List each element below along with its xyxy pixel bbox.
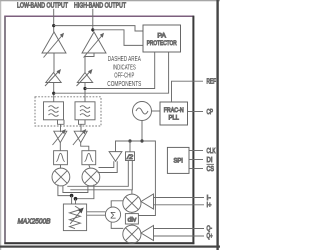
- wire bandpass to mixer high-band: [89, 165, 90, 168]
- wire filter to down VGA low-band: [60, 124, 62, 132]
- wire Q+ input: [154, 235, 205, 237]
- wire sigma to Q mixer: [111, 222, 123, 229]
- wire LO to mixer high-band lower: [98, 161, 118, 172]
- wire filter to down VGA high-band: [80, 124, 82, 132]
- wire high-band to PA protector: [93, 30, 143, 46]
- svg-text:OFF-CHIP: OFF-CHIP: [114, 73, 134, 80]
- chip frame: [5, 16, 193, 243]
- svg-text:FRAC-N: FRAC-N: [164, 108, 184, 114]
- divider div (quadrature): [125, 212, 138, 225]
- wire CP output: [188, 111, 204, 113]
- wire LO rail: [116, 141, 156, 216]
- wire CLK: [189, 150, 203, 152]
- filter bandpass high-band: [82, 151, 96, 165]
- wire mixer low-band out a: [58, 185, 72, 196]
- svg-text:LOW-BAND OUTPUT: LOW-BAND OUTPUT: [17, 3, 69, 10]
- wire sigma to I mixer: [111, 201, 123, 208]
- op-amp low-band PA driver (variable gain): [42, 32, 66, 58]
- svg-text:PA: PA: [157, 33, 166, 39]
- wire VGA to bandpass low-band: [59, 142, 61, 150]
- node junction high-band PA feedback: [83, 87, 86, 90]
- wire VGA jog to bandpass high-band: [81, 142, 89, 150]
- wire mixer low-band out b: [63, 185, 88, 192]
- op-amp Q input buffer: [141, 226, 154, 241]
- wire VCO down to LO rail: [141, 121, 143, 142]
- figure outer border bottom: [0, 246, 220, 248]
- filter bandpass low-band: [54, 151, 68, 165]
- wire LO to mixer high-band upper: [99, 161, 114, 167]
- wire PA protector feedback high-band: [85, 52, 155, 89]
- op-amp I input buffer: [141, 194, 154, 209]
- svg-text:CLK: CLK: [207, 148, 216, 155]
- wire driver to VGA low-band: [53, 53, 55, 73]
- svg-text:PLL: PLL: [168, 115, 179, 121]
- filter off-chip low-band (SAW): [44, 102, 65, 125]
- wire VGA to off-chip filter high-band: [84, 83, 86, 102]
- wire I+ input: [154, 204, 205, 206]
- op-amp low-band down VGA: [53, 129, 67, 145]
- svg-text:PROTECTOR: PROTECTOR: [147, 41, 178, 47]
- node LO rail junction at divider: [128, 139, 131, 142]
- mixer I: [123, 194, 141, 212]
- node junction high-band sense: [91, 28, 94, 31]
- SPI interface U3: [167, 147, 189, 173]
- PA protector U1: [143, 25, 181, 52]
- svg-text:Σ: Σ: [110, 210, 116, 221]
- svg-text:div: div: [128, 218, 137, 224]
- figure outer border right: [216, 0, 218, 250]
- svg-text:INDICATES: INDICATES: [113, 64, 136, 71]
- wire driver jog high-band: [85, 53, 94, 73]
- chip frame right edge (thick): [192, 16, 194, 245]
- node junction low-band sense: [52, 24, 55, 27]
- svg-text:DI: DI: [207, 157, 213, 164]
- svg-text:COMPONENTS: COMPONENTS: [107, 81, 141, 88]
- wire attenuator feed a: [71, 196, 73, 205]
- text off-chip note: [107, 56, 141, 88]
- node attenuator input b: [74, 197, 78, 201]
- wire CS: [189, 168, 203, 170]
- op-amp LO buffer: [109, 152, 122, 162]
- wire I- input: [154, 197, 205, 199]
- svg-text:SPI: SPI: [173, 158, 183, 164]
- svg-text:CS: CS: [207, 166, 215, 173]
- mixer high-band upconverter: [82, 168, 100, 186]
- wire low-band to PA protector: [54, 26, 143, 31]
- wire VCO to PLL: [152, 110, 161, 112]
- chip frame bottom edge (thick): [4, 242, 194, 244]
- svg-text:REF: REF: [207, 79, 217, 86]
- wire sigma to attenuator a: [87, 211, 106, 213]
- wire mixer high-band out b: [76, 185, 94, 199]
- svg-text:Q+: Q+: [207, 233, 213, 240]
- oscillator VCO: [133, 102, 152, 121]
- wire Q- input: [154, 228, 205, 230]
- divider /2: [126, 152, 135, 161]
- node LO rail junction at VCO: [140, 139, 143, 142]
- off-chip dashed area: [35, 97, 101, 126]
- svg-text:DASHED AREA: DASHED AREA: [108, 56, 141, 63]
- mixer low-band upconverter: [52, 168, 70, 186]
- wire VGA to off-chip filter low-band: [53, 83, 55, 102]
- figure outer border top: [0, 0, 220, 2]
- PLL U2 FRAC-N: [160, 102, 188, 125]
- wire divider tap: [129, 141, 131, 152]
- wire PA protector feedback low-band: [54, 52, 169, 93]
- figure outer border left: [0, 0, 2, 250]
- node junction low-band PA feedback: [52, 92, 55, 95]
- svg-text:I+: I+: [207, 202, 212, 209]
- svg-text:Q-: Q-: [207, 225, 213, 232]
- wire attenuator feed b: [75, 199, 77, 204]
- wire quadrature stub to I mixer: [131, 190, 133, 195]
- wire quadrature LO line b: [70, 161, 132, 190]
- node attenuator input a: [70, 194, 74, 198]
- op-amp high-band PA driver (variable gain): [82, 32, 106, 58]
- wire DI: [189, 159, 203, 161]
- op-amp low-band small VGA: [45, 69, 61, 86]
- svg-text:HIGH-BAND OUTPUT: HIGH-BAND OUTPUT: [74, 3, 127, 10]
- wire quadrature LO line a: [67, 161, 128, 187]
- summer sigma: [105, 207, 120, 222]
- wire REF input: [172, 81, 204, 102]
- op-amp high-band down VGA: [73, 129, 87, 145]
- chip frame top edge (purple tint): [4, 15, 194, 17]
- wire bandpass to mixer low-band: [60, 165, 62, 168]
- filter off-chip high-band (SAW): [75, 102, 95, 125]
- wire low-band output down: [53, 9, 55, 32]
- svg-text:I-: I-: [207, 195, 212, 202]
- mixer Q: [123, 225, 141, 243]
- svg-text:MAX2500B: MAX2500B: [18, 217, 51, 226]
- svg-text:CP: CP: [207, 109, 214, 116]
- wire sigma to attenuator b: [87, 214, 106, 216]
- wire high-band output down: [92, 9, 94, 32]
- svg-text:/2: /2: [126, 154, 134, 161]
- op-amp high-band small VGA: [77, 69, 93, 86]
- attenuator variable R1: [63, 204, 86, 231]
